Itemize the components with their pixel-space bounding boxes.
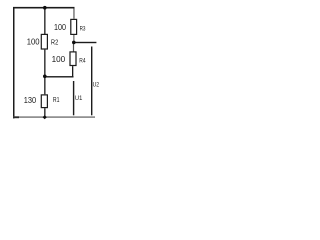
svg-text:R2: R2 xyxy=(51,40,58,47)
svg-text:R1: R1 xyxy=(53,97,60,104)
svg-text:100: 100 xyxy=(52,54,66,64)
svg-text:100: 100 xyxy=(54,22,66,32)
svg-text:R4: R4 xyxy=(79,58,86,65)
svg-text:U1: U1 xyxy=(75,95,83,102)
svg-text:130: 130 xyxy=(24,95,37,105)
svg-text:U2: U2 xyxy=(93,81,100,88)
svg-text:R3: R3 xyxy=(80,25,86,32)
svg-text:100: 100 xyxy=(27,37,40,47)
